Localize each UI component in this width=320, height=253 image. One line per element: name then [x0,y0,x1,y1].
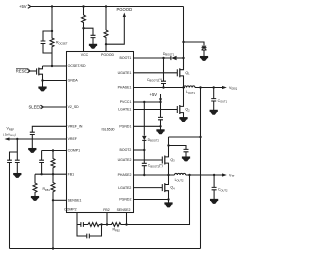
wire +5V vertical right [183,7,185,70]
wire RESET to Q5 gate [30,70,36,72]
svg-text:(.5xVDDQ): (.5xVDDQ) [3,133,16,138]
svg-text:SENSE1: SENSE1 [68,199,82,203]
wire decap star branch [184,42,205,57]
svg-text:PGND2: PGND2 [119,198,131,202]
svg-text:DBOOT1: DBOOT1 [163,52,175,57]
ground VDDQ decap [182,157,189,161]
ground COUT1 [210,110,217,114]
ground Q2 source [180,118,187,122]
svg-text:+5V: +5V [150,92,158,97]
capacitor CBOOT1 [163,58,165,88]
svg-text:ISL6530: ISL6530 [101,128,114,132]
svg-text:LGATE1: LGATE1 [118,108,131,112]
capacitor VREF left [7,160,12,162]
wire GNDA pin [43,80,67,82]
transistor Q1 [176,69,178,76]
svg-text:V2_SD: V2_SD [68,105,80,109]
resistor RPGOOD [104,30,108,44]
node junction COMP1 [52,149,54,151]
wire SENSE1 to bottom rail [52,200,54,248]
node junction phase1 fets [182,86,184,88]
inductor LOUT1 [184,86,195,88]
wire UGATE1 pin [133,72,177,74]
svg-text:DBOOT2: DBOOT2 [148,138,160,143]
resistor RFB1 [51,174,55,200]
transistor Q5 [36,68,38,74]
wire to VCC pin [83,28,85,52]
svg-text:PGND1: PGND1 [119,125,131,129]
svg-text:COUT2: COUT2 [218,188,228,193]
wire PGND2 pin [133,199,169,201]
diode DBOOT1 [170,56,172,60]
node VDDQ output arrow [222,86,227,89]
node junction SENSE1 [52,199,54,201]
resistor COMP2 series [88,223,107,227]
wire +5V rail [31,6,184,8]
inductor LOUT2 [175,173,186,175]
node RESET input chevron [27,69,30,73]
svg-text:COUT1: COUT1 [218,99,228,104]
capacitor COUT2 [213,175,215,199]
wire VDDQ feedback vertical [200,88,202,249]
ground VCC decap [89,44,96,48]
wire VCC decap branch [84,28,94,44]
wire PGND1 pin [133,125,161,127]
node +5V input label [19,4,27,9]
svg-text:FB1: FB1 [68,172,74,176]
capacitor VCC decap [91,35,96,37]
node junction VCC decoupling [82,27,84,29]
wire SLEEP to pin [43,106,66,108]
svg-text:Q3: Q3 [170,158,175,163]
resistor ROCSET [50,31,54,53]
capacitor COCSET branch [51,30,53,32]
node junction COUT2 [213,174,215,176]
resistor R COMP1 branch [51,151,55,175]
svg-text:PVCC1: PVCC1 [120,100,132,104]
node junction VTT return [188,174,190,176]
svg-text:LGATE2: LGATE2 [118,186,131,190]
node junction SENSE2 [125,223,127,225]
node junction decapstar [182,41,184,43]
wire UGATE2 pin [133,159,162,161]
node junction OCSET [51,65,53,67]
capacitor C COMP1 branch [41,151,43,175]
ground star decap [200,57,207,61]
wire rail to RPGOOD [105,7,107,31]
node junction rail-pgood [105,5,107,7]
svg-text:GNDA: GNDA [68,79,79,83]
node +5V input arrow PVCC [160,94,162,99]
wire ROCSET to OCSET pin wire [51,53,53,66]
svg-text:OCSET/SD: OCSET/SD [68,64,86,68]
node VREF output arrow [5,137,10,140]
wire BOOT1 pin [133,57,171,59]
node junction VDDQ down [199,86,201,88]
wire COMP1 pin [42,150,66,152]
svg-text:ROCSET: ROCSET [56,41,68,46]
wire VREF pin [10,138,67,140]
svg-text:LOUT2: LOUT2 [175,178,184,183]
ground PGND2 [168,200,170,203]
svg-text:Q4: Q4 [170,186,175,191]
node SLEEP input chevron [41,105,44,109]
node VTT output arrow [222,173,227,176]
svg-text:CBOOT1(*): CBOOT1(*) [147,78,162,83]
node SLEEP input label [29,105,43,110]
ground GNDA [39,87,46,91]
wire VDDQ output [195,87,222,89]
node junction comp2 loop [100,223,102,225]
svg-text:RFB2: RFB2 [113,228,121,233]
svg-text:Q2: Q2 [185,108,190,113]
node PGOOD output arrow [123,13,126,18]
wire COMP2 stub [76,213,78,225]
svg-text:VTT: VTT [229,173,235,178]
svg-text:VCC: VCC [81,53,89,57]
wire VDDQ decap branch [169,146,187,158]
transistor Q2 [176,106,178,113]
svg-text:COMP1: COMP1 [68,149,81,153]
wire rail to RVCC [83,7,85,16]
node junction FB1 left [40,173,42,175]
wire VREF divider [10,139,18,249]
node junction GNDA [41,79,43,81]
capacitor star decap [202,48,207,50]
node junction bottom rail [52,247,54,249]
svg-text:+5V: +5V [19,4,27,9]
svg-text:UGATE1: UGATE1 [118,71,132,75]
node junction VREF [16,138,18,140]
diode DBOOT2 [143,102,145,136]
node junction BOOT2 [143,149,145,151]
node junction PGND1 [159,125,161,127]
wire FB2 stub [106,213,108,225]
wire to PGOOD pin [105,44,107,52]
wire VREF_IN pin [32,126,66,148]
svg-text:LOUT1: LOUT1 [186,90,195,95]
node junction VDDQ tap [199,136,201,138]
wire PGOOD out branch [106,17,124,45]
svg-text:VDDQ: VDDQ [229,86,237,91]
node junction PVCC1 decap [159,101,161,103]
svg-text:VREF: VREF [68,137,77,141]
node junction rail-vcc [82,5,84,7]
capacitor VREF right [15,160,20,162]
svg-text:PHASE1: PHASE1 [118,86,132,90]
wire rail to ROCSET top [51,7,53,32]
wire GNDA to ground [42,81,44,88]
resistor RFB2 [107,223,127,227]
wire LGATE2 pin [133,187,162,189]
wire SENSE1 pin [53,199,66,201]
wire SENSE2 return to VTT [127,175,190,225]
ground VREF cap [14,174,21,178]
capacitor CBOOT2 [143,150,145,175]
svg-text:UGATE2: UGATE2 [118,158,132,162]
ground PGND1 [160,126,162,130]
svg-text:SLEEP: SLEEP [29,105,43,110]
svg-text:RFB1: RFB1 [43,187,51,192]
svg-text:COMP2: COMP2 [64,208,77,212]
wire PVCC1 pin [133,101,161,103]
svg-text:FB2: FB2 [103,208,109,212]
svg-text:PHASE2: PHASE2 [118,173,132,177]
capacitor PVCC decap [160,102,162,126]
ground VREF_IN decap [29,149,36,153]
node junction FB2 [106,223,108,225]
node junction FB1 right [52,173,54,175]
svg-text:VREF_IN: VREF_IN [68,125,83,129]
svg-text:BOOT2: BOOT2 [120,148,132,152]
ground FB1 divider [31,197,38,201]
resistor RVCC [82,15,86,28]
wire Q3 drain to VDDQ [169,136,201,138]
node junction PGOOD [105,43,107,45]
node junction phase2 fets [167,174,169,176]
capacitor VREF_IN decap [30,132,35,134]
wire VTT output [186,174,223,176]
transistor Q4 [161,184,163,191]
node junction DBOOT1 [182,57,184,59]
node junction Q3 decap [167,144,169,146]
IC U1 ISL6530 controller body [67,52,134,213]
transistor Q3 [161,157,163,164]
wire PHASE1 pin [133,87,185,89]
node +5V input chevron [28,5,31,9]
node junction phase1 cboot [162,86,164,88]
svg-text:VREF: VREF [7,127,15,132]
wire LGATE1 pin [133,109,177,111]
node junction PVCC1 dboot2 [143,101,145,103]
wire OCSET/SD pin [43,65,67,67]
capacitor COUT1 [213,88,215,111]
svg-text:CBOOT2(*): CBOOT2(*) [148,164,163,169]
node junction PGND2 [167,198,169,200]
resistor FB1 lower divider [33,174,37,196]
svg-text:SENSE2: SENSE2 [117,208,131,212]
capacitor VDDQ decap [184,149,189,151]
svg-text:BOOT1: BOOT1 [120,56,132,60]
node junction phase2 cboot [143,174,145,176]
wire bottom rail VDDQ feedback [10,248,201,250]
ground COUT2 [211,199,218,203]
svg-text:PGOOD: PGOOD [101,53,115,57]
wire FB1 pin [35,173,66,175]
wire BOOT2 pin [133,149,144,151]
node junction CBOOT1 top [162,57,164,59]
svg-text:PGOOD: PGOOD [117,7,133,12]
node RESET input label [16,69,30,74]
node junction rail-ocset [51,5,53,7]
node junction COUT1 [213,86,215,88]
capacitor COMP2 parallel loop [77,225,102,237]
capacitor COMP2 series [77,224,88,226]
wire PHASE2 pin [133,174,175,176]
svg-text:Q1: Q1 [185,71,190,76]
